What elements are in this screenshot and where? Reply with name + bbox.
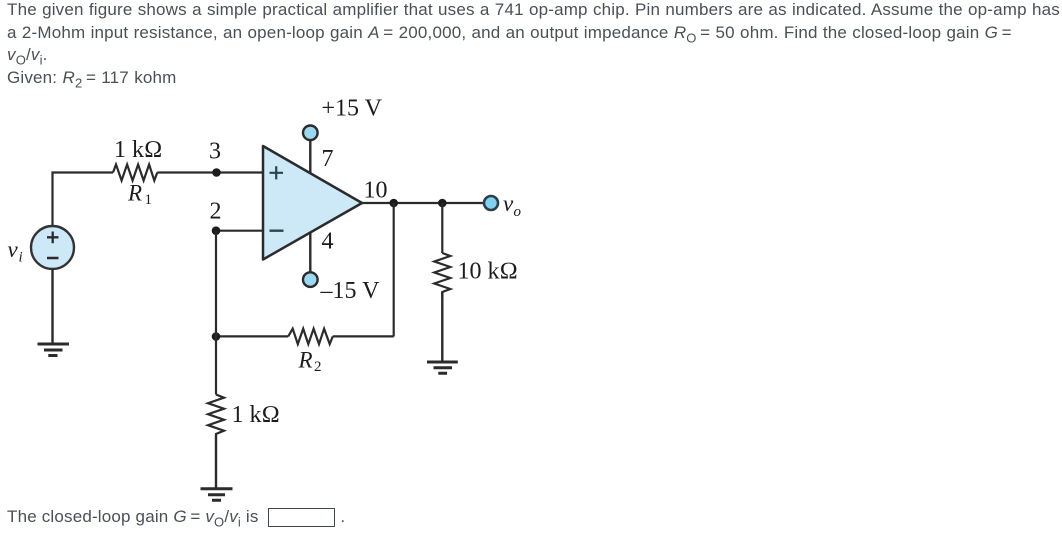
resistor 10k bbox=[434, 253, 450, 298]
source vi bbox=[31, 226, 74, 269]
ground (under 10k) bbox=[427, 362, 458, 373]
wire: source to R1 bbox=[53, 173, 114, 227]
svg-text:o: o bbox=[514, 204, 522, 220]
node: output/feedback junction bbox=[389, 199, 398, 208]
source - mark bbox=[47, 257, 59, 260]
svg-text:v: v bbox=[503, 191, 514, 216]
svg-text:+15 V: +15 V bbox=[322, 96, 383, 122]
wire: output node to 10k resistor bbox=[441, 203, 443, 253]
resistor R1 bbox=[113, 165, 157, 181]
resistor R2 bbox=[288, 329, 333, 344]
ground (bottom, under 1k) bbox=[201, 489, 233, 501]
wire: inverting input bbox=[216, 230, 263, 232]
wire: op-amp output to vo terminal bbox=[362, 202, 484, 204]
node: inverting/feedback junction bbox=[212, 332, 221, 341]
terminal -15V bbox=[303, 272, 318, 287]
terminal +15V bbox=[303, 126, 318, 141]
op-amp - input mark bbox=[270, 229, 284, 231]
svg-text:2: 2 bbox=[210, 199, 222, 225]
svg-text:1 kΩ: 1 kΩ bbox=[232, 402, 280, 428]
wire: 10k resistor to ground bbox=[441, 292, 443, 361]
svg-text:1 kΩ: 1 kΩ bbox=[114, 137, 162, 163]
wire: node 2 down to 1k resistor bbox=[215, 231, 217, 395]
node 3 (junction dot) bbox=[212, 168, 221, 177]
wire: 1k resistor to ground bbox=[215, 435, 217, 488]
terminal vo bbox=[484, 196, 498, 210]
svg-text:R: R bbox=[298, 348, 313, 373]
svg-text:7: 7 bbox=[322, 146, 334, 172]
wire: R1 to op-amp noninverting input bbox=[157, 171, 263, 173]
node 2 (junction dot) bbox=[212, 226, 221, 235]
svg-text:3: 3 bbox=[209, 139, 221, 165]
svg-text:4: 4 bbox=[322, 229, 334, 255]
svg-text:1: 1 bbox=[145, 192, 153, 208]
svg-text:R: R bbox=[127, 181, 142, 206]
svg-text:–15 V: –15 V bbox=[320, 278, 381, 304]
svg-text:10: 10 bbox=[364, 178, 388, 204]
ground (under source) bbox=[38, 344, 70, 356]
wire: pin 7 to +15V bbox=[309, 141, 311, 174]
wire: feedback from output node down bbox=[393, 203, 395, 337]
op-amp U1 (741) bbox=[263, 146, 362, 260]
op-amp + input mark bbox=[270, 166, 284, 179]
source + mark bbox=[47, 232, 59, 244]
svg-text:2: 2 bbox=[314, 359, 322, 375]
wire: source to ground bbox=[51, 269, 53, 344]
svg-text:10 kΩ: 10 kΩ bbox=[458, 259, 518, 285]
wire: pin 4 to -15V bbox=[309, 232, 311, 272]
node: output/10k junction bbox=[438, 199, 447, 208]
svg-text:i: i bbox=[19, 250, 23, 266]
resistor 1k (to ground) bbox=[208, 395, 224, 436]
wire: feedback bottom left segment bbox=[216, 335, 288, 337]
svg-text:v: v bbox=[8, 237, 19, 262]
wire: feedback bottom right segment bbox=[333, 335, 394, 337]
